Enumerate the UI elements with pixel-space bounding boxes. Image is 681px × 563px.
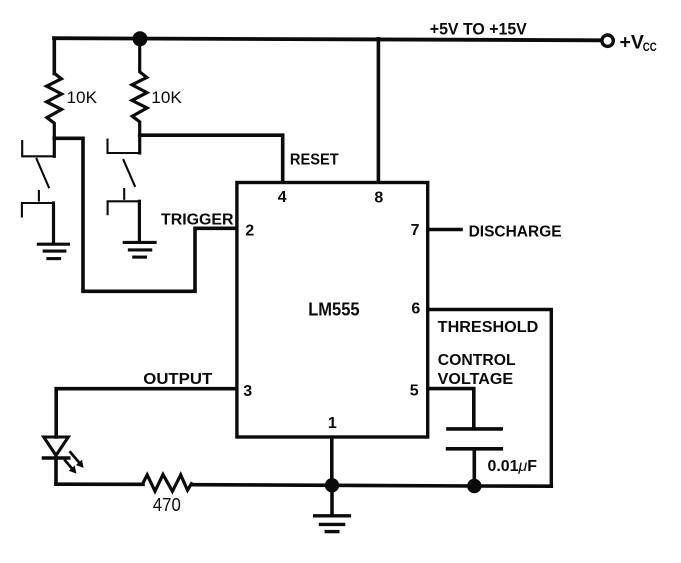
svg-text:+5V TO +15V: +5V TO +15V bbox=[430, 21, 527, 39]
wire: R1 node to TRIGGER pin 2 bbox=[54, 138, 236, 291]
label: +Vcc bbox=[620, 31, 657, 54]
wire: R3 to pin1/ground junction bbox=[192, 483, 333, 487]
wire: pin 3 OUTPUT to LED anode bbox=[56, 389, 236, 437]
svg-text:7: 7 bbox=[411, 222, 420, 239]
svg-text:6: 6 bbox=[411, 301, 420, 318]
ground (below S2) bbox=[124, 242, 155, 257]
svg-text:VOLTAGE: VOLTAGE bbox=[438, 371, 514, 388]
wire: LED cathode to R3 bbox=[56, 482, 143, 486]
wire: +V supply rail bbox=[54, 38, 600, 40]
svg-text:2: 2 bbox=[245, 223, 254, 240]
wire: pin 1 down to ground junction bbox=[330, 439, 334, 486]
svg-text:+V: +V bbox=[620, 31, 644, 53]
wire: supply rail to pin 8 bbox=[377, 39, 381, 181]
wire: capacitor junction to threshold corner bbox=[474, 484, 551, 488]
node: capacitor/ground junction dot bbox=[467, 479, 481, 493]
svg-text:RESET: RESET bbox=[290, 151, 339, 168]
resistor R2 10K (right) bbox=[132, 39, 147, 153]
svg-text:1: 1 bbox=[328, 415, 337, 432]
svg-text:3: 3 bbox=[243, 383, 252, 400]
resistor R1 10K (left) bbox=[47, 73, 62, 156]
svg-text:5: 5 bbox=[410, 382, 419, 399]
wire: junction down to main ground bbox=[330, 485, 334, 514]
svg-text:THRESHOLD: THRESHOLD bbox=[438, 319, 539, 336]
LED D1 bbox=[43, 437, 68, 484]
IC U1 LM555 timer body bbox=[237, 183, 428, 438]
node: pin 1 ground junction dot bbox=[325, 478, 339, 492]
svg-text:CONTROL: CONTROL bbox=[438, 352, 516, 369]
resistor R3 470 bbox=[143, 475, 192, 492]
svg-text:CC: CC bbox=[643, 42, 657, 54]
svg-text:4: 4 bbox=[278, 189, 287, 206]
svg-text:10K: 10K bbox=[67, 88, 98, 107]
wire: rail corner down to R1 top bbox=[52, 38, 56, 73]
svg-text:10K: 10K bbox=[151, 88, 182, 107]
svg-text:LM555: LM555 bbox=[308, 300, 359, 320]
terminal: +Vcc open circle bbox=[602, 35, 613, 46]
switch S1 (pushbutton, left) bbox=[22, 141, 54, 216]
wire: pin 6 THRESHOLD net (right, down to bottom rail) bbox=[429, 310, 552, 487]
wire: pin 7 stub bbox=[429, 228, 461, 232]
switch S2 (pushbutton, right) bbox=[108, 140, 140, 215]
ground (main, below pin 1) bbox=[315, 516, 350, 532]
wire: ground junction to capacitor junction bbox=[332, 483, 474, 487]
wire: S1 to ground bbox=[52, 203, 55, 243]
svg-text:0.01μF: 0.01μF bbox=[488, 458, 538, 475]
wire: R2 node to RESET pin 4 bbox=[140, 135, 283, 181]
wire: S2 to ground bbox=[138, 201, 141, 241]
svg-text:DISCHARGE: DISCHARGE bbox=[469, 224, 562, 241]
capacitor C1 plates bbox=[448, 427, 501, 431]
wire: capacitor to bottom rail bbox=[472, 449, 476, 486]
node: supply junction dot bbox=[133, 31, 148, 46]
svg-text:TRIGGER: TRIGGER bbox=[161, 211, 234, 228]
svg-text:470: 470 bbox=[153, 495, 181, 515]
wire: pin 5 to capacitor bbox=[429, 389, 474, 428]
LED light arrows bbox=[65, 452, 83, 473]
ground (below S1) bbox=[38, 244, 68, 258]
svg-text:8: 8 bbox=[374, 189, 383, 206]
svg-text:OUTPUT: OUTPUT bbox=[143, 371, 212, 388]
